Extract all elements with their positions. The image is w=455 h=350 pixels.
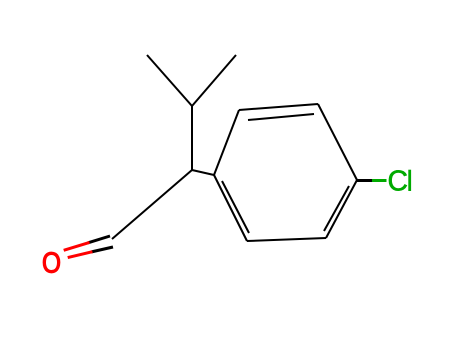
isopropyl left methyl bond xyxy=(147,55,192,106)
Cl atom label l glyph xyxy=(408,170,411,191)
C-Cl bond black half xyxy=(357,179,372,182)
benzene ring edge TL-TR xyxy=(239,104,318,110)
C=O double bond upper line red half xyxy=(64,242,90,250)
svg-text:C: C xyxy=(388,164,408,196)
ring inner double bond along TL-TR xyxy=(248,114,314,120)
benzene ring edge BL-L xyxy=(214,175,247,241)
benzene ring edge L-TL xyxy=(214,110,239,175)
benzene ring edge TR-R xyxy=(318,104,357,180)
svg-text:O: O xyxy=(42,247,61,279)
benzene ring edge R-BR xyxy=(326,180,357,238)
alpha-C to ring ipso stub bond xyxy=(192,170,214,175)
C=O double bond upper line black half xyxy=(88,236,110,243)
isopropyl right methyl bond xyxy=(192,55,236,106)
C-Cl bond green half xyxy=(372,179,387,182)
ring inner double bond along R-BR xyxy=(324,186,349,231)
C=O double bond lower line black half xyxy=(91,247,113,252)
ring inner double bond along BL-L xyxy=(222,181,249,233)
isopropyl CH to alpha-C vertical bond xyxy=(191,106,193,170)
benzene ring edge BR-BL xyxy=(247,238,326,241)
C=O double bond lower line red half xyxy=(68,252,93,258)
alpha-C to aldehyde C bond xyxy=(112,170,192,239)
